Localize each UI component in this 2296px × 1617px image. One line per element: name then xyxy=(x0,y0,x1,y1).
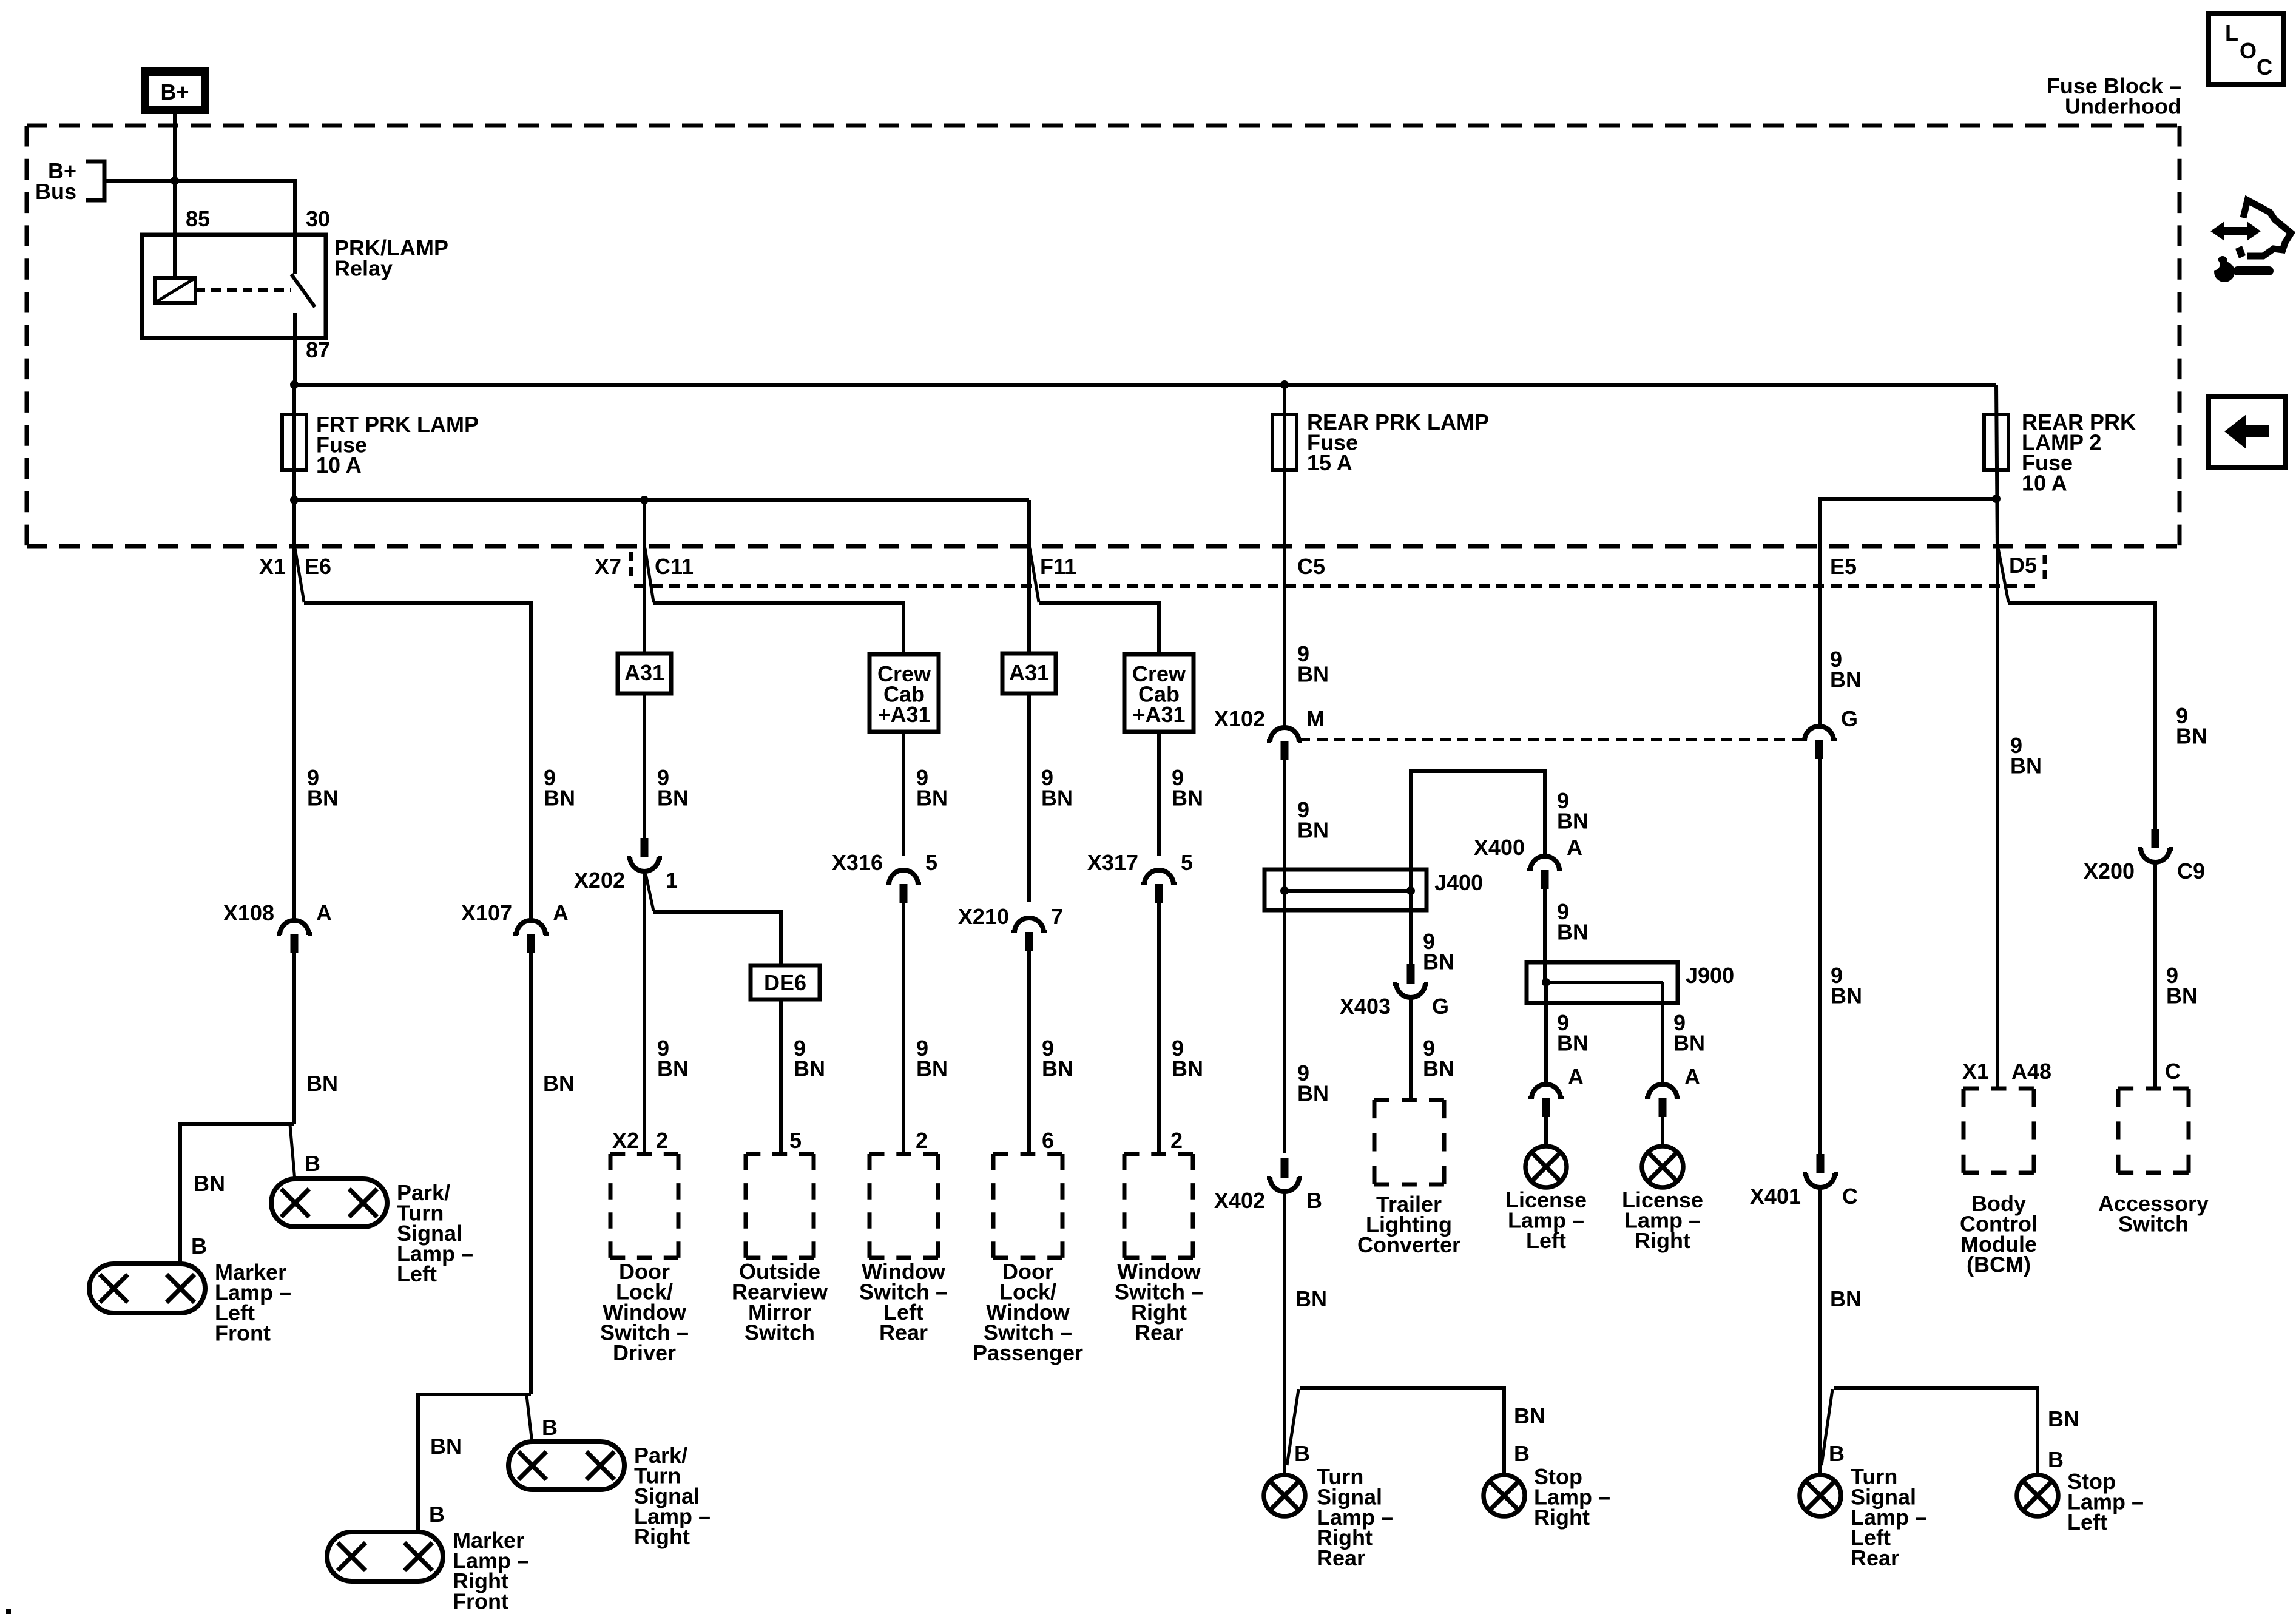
svg-text:BN: BN xyxy=(2176,724,2207,749)
svg-text:BN: BN xyxy=(916,786,948,811)
label BN stop left xyxy=(2048,1406,2079,1431)
jog turn right rear xyxy=(1287,1389,1298,1465)
label Stop Lamp - Right xyxy=(1534,1464,1610,1530)
connector X317 pin 5 xyxy=(1141,870,1177,903)
label C11 xyxy=(655,554,694,579)
svg-text:C11: C11 xyxy=(655,554,694,579)
dashed link X102 to G xyxy=(1299,738,1805,741)
svg-text:B: B xyxy=(2048,1447,2064,1472)
svg-text:B+: B+ xyxy=(160,79,189,104)
svg-text:X202: X202 xyxy=(574,868,625,893)
svg-text:Underhood: Underhood xyxy=(2065,94,2181,119)
svg-text:A: A xyxy=(1568,1064,1584,1089)
wire X401 to turn lamp left rear xyxy=(1818,1188,1822,1475)
label 9 BN wire X202 xyxy=(657,765,689,811)
component box Accessory Switch xyxy=(2118,1089,2189,1173)
label Crew Cab +A31 left xyxy=(877,661,931,727)
label 9 BN wire E5 upper xyxy=(1830,647,1862,692)
label 9 BN wire X403 xyxy=(1423,929,1454,974)
svg-text:Right: Right xyxy=(1635,1228,1690,1253)
label 9 BN wire door lock passenger xyxy=(1042,1036,1073,1081)
svg-text:BN: BN xyxy=(2010,754,2042,778)
junction dot rear prk lamp 2 xyxy=(1992,495,2001,503)
wire X202 to door lock switch xyxy=(643,872,646,1154)
relay coil to switch dashed link xyxy=(195,288,291,292)
svg-text:A48: A48 xyxy=(2011,1059,2051,1084)
svg-text:BN: BN xyxy=(1297,662,1329,687)
relay pin 87 wire xyxy=(293,313,297,385)
navigation arrow box xyxy=(2209,396,2285,468)
branch to DE6 xyxy=(653,912,781,965)
jog X202 to DE6 branch xyxy=(646,874,653,911)
label BN marker left xyxy=(194,1171,225,1196)
svg-text:Front: Front xyxy=(215,1321,271,1346)
branch to stop lamp right xyxy=(1300,1388,1504,1475)
svg-text:Rear: Rear xyxy=(879,1320,928,1345)
label 9 BN wire BCM xyxy=(2010,733,2042,778)
label 9 BN wire window right rear xyxy=(1172,1036,1203,1081)
svg-text:A: A xyxy=(553,900,569,925)
label 9 BN license right xyxy=(1673,1010,1705,1056)
label 9 BN license left xyxy=(1557,1010,1589,1056)
svg-text:15 A: 15 A xyxy=(1307,450,1352,475)
wire F11 drop xyxy=(1027,500,1031,653)
label Crew Cab +A31 right xyxy=(1132,661,1186,727)
label License Lamp - Right xyxy=(1622,1187,1703,1253)
wire to license lamp right xyxy=(1661,1117,1664,1146)
svg-text:Left: Left xyxy=(2067,1510,2107,1534)
wire J400 through xyxy=(1283,890,1286,1153)
label BN left front xyxy=(306,1071,338,1096)
label A at X107 xyxy=(553,900,569,925)
connector license right pin A xyxy=(1645,1084,1680,1117)
svg-text:+A31: +A31 xyxy=(877,702,930,727)
svg-text:5: 5 xyxy=(789,1128,802,1153)
label A license right xyxy=(1684,1064,1700,1089)
svg-text:BN: BN xyxy=(1042,1056,1073,1081)
label B park turn left xyxy=(305,1151,320,1176)
label X200 xyxy=(2084,859,2135,883)
svg-text:Left: Left xyxy=(1526,1228,1566,1253)
connector X107 pin A xyxy=(513,920,549,953)
vehicle service icon body outline xyxy=(2235,200,2291,258)
svg-text:X402: X402 xyxy=(1214,1188,1265,1213)
label Park/Turn Signal Lamp - Left xyxy=(397,1180,473,1286)
svg-text:E5: E5 xyxy=(1830,554,1857,579)
label REAR PRK LAMP Fuse 15 A xyxy=(1307,410,1489,475)
B+ power terminal box xyxy=(145,72,205,110)
svg-text:Switch: Switch xyxy=(745,1320,815,1345)
wire C11 drop xyxy=(643,500,646,653)
splice J400 internal xyxy=(1280,886,1415,895)
branch rail C11 xyxy=(653,603,903,654)
label 2 pin door lock driver xyxy=(656,1128,668,1153)
label Door Lock/Window Switch - Passenger xyxy=(973,1259,1083,1365)
junction dot 87 rail xyxy=(290,380,299,389)
svg-text:2: 2 xyxy=(916,1128,928,1153)
svg-text:BN: BN xyxy=(543,1071,575,1096)
svg-text:C5: C5 xyxy=(1297,554,1325,579)
label Stop Lamp - Left xyxy=(2067,1469,2144,1534)
label B stop left xyxy=(2048,1447,2064,1472)
fuse REAR PRK LAMP 15A xyxy=(1272,414,1297,470)
page mark xyxy=(6,1609,11,1614)
label 9 BN wire X210 xyxy=(1041,765,1073,811)
label A license left xyxy=(1568,1064,1584,1089)
wire D5 to BCM xyxy=(1996,549,1999,1089)
svg-text:G: G xyxy=(1841,706,1858,731)
connector G on dashed link xyxy=(1801,726,1837,759)
svg-text:+A31: +A31 xyxy=(1132,702,1185,727)
svg-text:F11: F11 xyxy=(1040,554,1076,579)
jog C11 to branch xyxy=(645,548,653,602)
svg-text:87: 87 xyxy=(306,337,330,362)
label Turn Signal Lamp - Right Rear xyxy=(1317,1464,1393,1570)
wire J400 right branch up xyxy=(1411,771,1545,891)
label C9 at X200 xyxy=(2177,859,2205,883)
lamp Stop Lamp - Left xyxy=(2017,1475,2058,1516)
svg-text:BN: BN xyxy=(1830,1286,1862,1311)
wire REAR PRK LAMP 2 fuse drop xyxy=(1996,385,1997,549)
label J400 xyxy=(1434,870,1483,895)
component box Outside Rearview Mirror Switch xyxy=(746,1154,814,1258)
connector band dashed line xyxy=(634,584,2036,588)
label 2 pin window right rear xyxy=(1170,1128,1183,1153)
svg-text:BN: BN xyxy=(430,1434,462,1459)
connector X200 pin C9 xyxy=(2138,829,2173,862)
connector X210 pin 7 xyxy=(1011,918,1047,951)
svg-text:X1: X1 xyxy=(259,554,286,579)
component box Window Switch - Right Rear xyxy=(1124,1154,1193,1258)
svg-text:BN: BN xyxy=(1172,786,1203,811)
connector license left pin A xyxy=(1528,1084,1564,1117)
svg-text:BN: BN xyxy=(2048,1406,2079,1431)
option box A31 passenger xyxy=(1002,653,1056,694)
svg-text:X400: X400 xyxy=(1474,835,1525,860)
label Accessory Switch xyxy=(2098,1191,2209,1237)
wire X210 to door lock passenger xyxy=(1027,951,1031,1154)
label 2 pin window left rear xyxy=(916,1128,928,1153)
branch rail F11 xyxy=(1039,603,1159,654)
label X107 xyxy=(461,900,512,925)
svg-text:BN: BN xyxy=(1297,818,1329,843)
wire A31 to X210 xyxy=(1027,694,1031,902)
svg-text:B: B xyxy=(429,1502,445,1527)
label 85 xyxy=(186,206,210,231)
label Turn Signal Lamp - Left Rear xyxy=(1851,1464,1927,1570)
wire X402 to turn lamp xyxy=(1283,1192,1286,1475)
component box Window Switch - Left Rear xyxy=(869,1154,938,1258)
label A at X400 xyxy=(1567,835,1582,860)
label B+ terminal xyxy=(160,79,189,104)
svg-text:X1: X1 xyxy=(1962,1059,1989,1084)
wire X317 to window switch right xyxy=(1157,903,1161,1154)
fuse FRT PRK LAMP 10A xyxy=(282,414,306,470)
lamp License Lamp - Left xyxy=(1525,1146,1567,1187)
label G at E5 xyxy=(1841,706,1858,731)
LOC reference box xyxy=(2209,13,2284,84)
option box Crew Cab +A31 right xyxy=(1124,654,1194,732)
svg-text:X210: X210 xyxy=(958,904,1009,929)
svg-text:85: 85 xyxy=(186,206,210,231)
component box Door Lock/Window Switch - Passenger xyxy=(993,1154,1062,1258)
wire DE6 to mirror switch xyxy=(779,999,783,1154)
label BN right front xyxy=(543,1071,575,1096)
splice box J400 xyxy=(1264,869,1427,910)
label G at X403 xyxy=(1432,994,1449,1019)
label License Lamp - Left xyxy=(1505,1187,1587,1253)
branch to marker right front xyxy=(418,1394,531,1532)
B+ Bus bracket symbol xyxy=(86,161,104,200)
svg-text:D5: D5 xyxy=(2009,553,2037,578)
wire X316 to window switch xyxy=(902,903,905,1154)
svg-text:BN: BN xyxy=(1423,1056,1454,1081)
label B turn right rear xyxy=(1294,1441,1310,1466)
connector X403 pin G xyxy=(1393,964,1428,998)
wire X400 to J900 xyxy=(1543,889,1547,984)
svg-text:B: B xyxy=(1829,1441,1845,1466)
svg-text:Relay: Relay xyxy=(334,256,393,281)
svg-text:Left: Left xyxy=(397,1261,437,1286)
svg-text:B: B xyxy=(1514,1441,1530,1466)
svg-text:Front: Front xyxy=(453,1589,508,1614)
label 9 BN wire window left rear xyxy=(916,1036,948,1081)
label B park turn right xyxy=(542,1415,558,1440)
label X400 xyxy=(1474,835,1525,860)
wire crew cab to X316 xyxy=(902,732,905,856)
lamp Park/Turn Signal Lamp - Left xyxy=(271,1179,387,1227)
component box Trailer Lighting Converter xyxy=(1374,1100,1444,1184)
svg-text:J400: J400 xyxy=(1434,870,1483,895)
option box DE6 xyxy=(751,965,820,999)
label X317 xyxy=(1087,850,1138,875)
svg-text:BN: BN xyxy=(1423,950,1454,974)
svg-text:X317: X317 xyxy=(1087,850,1138,875)
svg-text:BN: BN xyxy=(657,1056,689,1081)
relay PRK/LAMP box xyxy=(142,235,326,338)
label B+ Bus xyxy=(35,158,76,204)
junction dot rail E6 xyxy=(290,496,299,504)
svg-text:X316: X316 xyxy=(832,850,883,875)
svg-text:BN: BN xyxy=(2166,984,2198,1008)
connector band separator X7 xyxy=(629,552,633,579)
svg-text:M: M xyxy=(1306,706,1325,731)
junction dot rail C11 xyxy=(640,496,649,504)
label A31 passenger xyxy=(1009,660,1049,685)
wire X108 to park lamp xyxy=(292,953,296,1124)
svg-text:C: C xyxy=(2257,55,2272,79)
svg-text:Right: Right xyxy=(634,1524,690,1549)
label 5 at X316 xyxy=(925,850,937,875)
label C at X401 xyxy=(1842,1184,1858,1209)
label 5 at X317 xyxy=(1181,850,1193,875)
label A48 at BCM xyxy=(2011,1059,2051,1084)
label X108 xyxy=(223,900,274,925)
connector X316 pin 5 xyxy=(886,870,921,903)
wire crew cab to X317 xyxy=(1157,732,1161,856)
svg-text:DE6: DE6 xyxy=(764,970,806,995)
lamp Turn Signal Lamp - Right Rear xyxy=(1264,1475,1305,1516)
svg-text:B: B xyxy=(1306,1188,1322,1213)
svg-text:BN: BN xyxy=(1830,667,1862,692)
jog D5 to branch xyxy=(1998,548,2008,602)
label A31 driver xyxy=(624,660,664,685)
label E5 xyxy=(1830,554,1857,579)
relay coil xyxy=(155,278,195,303)
label J900 xyxy=(1686,963,1734,988)
label B turn left rear xyxy=(1829,1441,1845,1466)
connector X202 pin 1 xyxy=(627,838,662,871)
wire G to X401 xyxy=(1818,759,1822,1154)
svg-text:BN: BN xyxy=(1557,1031,1589,1056)
label A at X108 xyxy=(316,900,332,925)
label 9 BN wire C5 upper xyxy=(1297,641,1329,687)
svg-text:BN: BN xyxy=(1172,1056,1203,1081)
svg-text:B: B xyxy=(542,1415,558,1440)
label BN stop right xyxy=(1514,1403,1545,1428)
svg-text:L: L xyxy=(2225,21,2238,46)
connector X401 pin C xyxy=(1803,1154,1838,1187)
jog to park turn left xyxy=(290,1125,295,1180)
label F11 xyxy=(1040,554,1076,579)
svg-text:5: 5 xyxy=(1181,850,1193,875)
component box Door Lock/Window Switch - Driver xyxy=(610,1154,678,1258)
label 9 BN wire X400 xyxy=(1557,788,1589,834)
label X403 xyxy=(1340,994,1391,1019)
junction dot B+ bus xyxy=(171,177,179,185)
wire B+ to bus junction xyxy=(173,114,177,182)
label 9 BN wire C5 mid xyxy=(1297,797,1329,843)
label 87 xyxy=(306,337,330,362)
label Window Switch - Left Rear xyxy=(859,1259,948,1345)
svg-text:C: C xyxy=(2165,1059,2181,1084)
component box Body Control Module xyxy=(1963,1089,2034,1173)
svg-text:G: G xyxy=(1432,994,1449,1019)
label 9 BN wire X316 xyxy=(916,765,948,811)
svg-text:C9: C9 xyxy=(2177,859,2205,883)
label X202 xyxy=(574,868,625,893)
wire J400 right down xyxy=(1409,890,1413,965)
svg-text:O: O xyxy=(2240,38,2257,63)
label M at X102 xyxy=(1306,706,1325,731)
label 1 at X202 xyxy=(666,868,678,893)
svg-text:A: A xyxy=(316,900,332,925)
lamp Marker Lamp - Left Front xyxy=(89,1264,205,1313)
svg-text:BN: BN xyxy=(1295,1286,1327,1311)
label BN turn left rear xyxy=(1830,1286,1862,1311)
navigation left arrow xyxy=(2224,414,2269,449)
label X316 xyxy=(832,850,883,875)
label 9 BN wire X317 xyxy=(1172,765,1203,811)
option box Crew Cab +A31 left xyxy=(869,654,939,732)
branch rail E6 xyxy=(304,603,531,920)
label BN marker right xyxy=(430,1434,462,1459)
svg-text:X2: X2 xyxy=(612,1128,639,1153)
lamp License Lamp - Right xyxy=(1642,1146,1683,1187)
svg-text:2: 2 xyxy=(656,1128,668,1153)
svg-text:E6: E6 xyxy=(305,554,331,579)
svg-text:X108: X108 xyxy=(223,900,274,925)
svg-text:BN: BN xyxy=(1041,786,1073,811)
svg-text:Driver: Driver xyxy=(613,1340,676,1365)
wire bracket to junction xyxy=(104,179,175,183)
label PRK/LAMP Relay xyxy=(334,235,448,281)
label 9 BN wire door lock driver xyxy=(657,1036,689,1081)
label 9 BN wire X107 xyxy=(544,765,575,811)
label X1 at BCM xyxy=(1962,1059,1989,1084)
splice box J900 xyxy=(1527,962,1678,1003)
svg-text:A: A xyxy=(1567,835,1582,860)
label Door Lock/Window Switch - Driver xyxy=(600,1259,689,1365)
branch to marker left front xyxy=(180,1124,294,1266)
label Park/Turn Signal Lamp - Right xyxy=(634,1443,711,1549)
label Outside Rearview Mirror Switch xyxy=(732,1259,828,1345)
label 6 pin door lock passenger xyxy=(1042,1128,1054,1153)
jog to park turn right xyxy=(527,1396,532,1443)
svg-text:X107: X107 xyxy=(461,900,512,925)
label 5 pin mirror switch xyxy=(789,1128,802,1153)
wire X200 to accessory switch xyxy=(2153,863,2157,1089)
svg-text:BN: BN xyxy=(1297,1081,1329,1106)
lamp Stop Lamp - Right xyxy=(1484,1475,1525,1516)
svg-text:BN: BN xyxy=(657,786,689,811)
jog turn left rear xyxy=(1822,1389,1832,1465)
svg-text:X200: X200 xyxy=(2084,859,2135,883)
wire relay pin 85 xyxy=(173,181,177,280)
label Window Switch - Right Rear xyxy=(1115,1259,1203,1345)
svg-text:Passenger: Passenger xyxy=(973,1340,1083,1365)
svg-text:BN: BN xyxy=(1557,809,1589,834)
svg-text:BN: BN xyxy=(544,786,575,811)
svg-text:Switch: Switch xyxy=(2118,1212,2189,1237)
label 9 BN wire E5 mid xyxy=(1831,963,1862,1008)
junction dot rail C5 fuse xyxy=(1280,380,1289,389)
label 9 BN wire J900 feed xyxy=(1557,899,1589,945)
label X102 xyxy=(1214,706,1265,731)
jog E6 to branch xyxy=(295,548,304,602)
svg-text:30: 30 xyxy=(306,206,330,231)
label 9 BN wire DE6 xyxy=(794,1036,825,1081)
svg-text:BN: BN xyxy=(306,1071,338,1096)
svg-text:BN: BN xyxy=(1514,1403,1545,1428)
fuse block underhood dashed border xyxy=(27,126,2180,546)
splice J900 internal xyxy=(1542,978,1663,987)
label Trailer Lighting Converter xyxy=(1357,1192,1460,1257)
svg-text:10 A: 10 A xyxy=(316,453,362,478)
svg-text:X102: X102 xyxy=(1214,706,1265,731)
branch to stop lamp left xyxy=(1834,1388,2038,1475)
svg-text:6: 6 xyxy=(1042,1128,1054,1153)
label 9 BN wire accessory lower xyxy=(2166,963,2198,1008)
connector X108 pin A xyxy=(277,920,312,953)
svg-text:A31: A31 xyxy=(624,660,664,685)
wire J900 left out xyxy=(1544,981,1548,1084)
vehicle service icon arrow xyxy=(2210,221,2261,241)
svg-text:A: A xyxy=(1684,1064,1700,1089)
label B at X402 xyxy=(1306,1188,1322,1213)
label E6 xyxy=(305,554,331,579)
svg-text:A31: A31 xyxy=(1009,660,1049,685)
connector band separator D5 xyxy=(2043,555,2047,584)
svg-text:BN: BN xyxy=(916,1056,948,1081)
branch rail D5 to accessory xyxy=(2008,603,2155,829)
label 30 xyxy=(306,206,330,231)
label BN turn right rear xyxy=(1295,1286,1327,1311)
wire to license lamp left xyxy=(1544,1117,1548,1146)
rail to E5 drop xyxy=(1820,499,1996,727)
lamp Marker Lamp - Right Front xyxy=(327,1532,443,1581)
svg-text:2: 2 xyxy=(1170,1128,1183,1153)
